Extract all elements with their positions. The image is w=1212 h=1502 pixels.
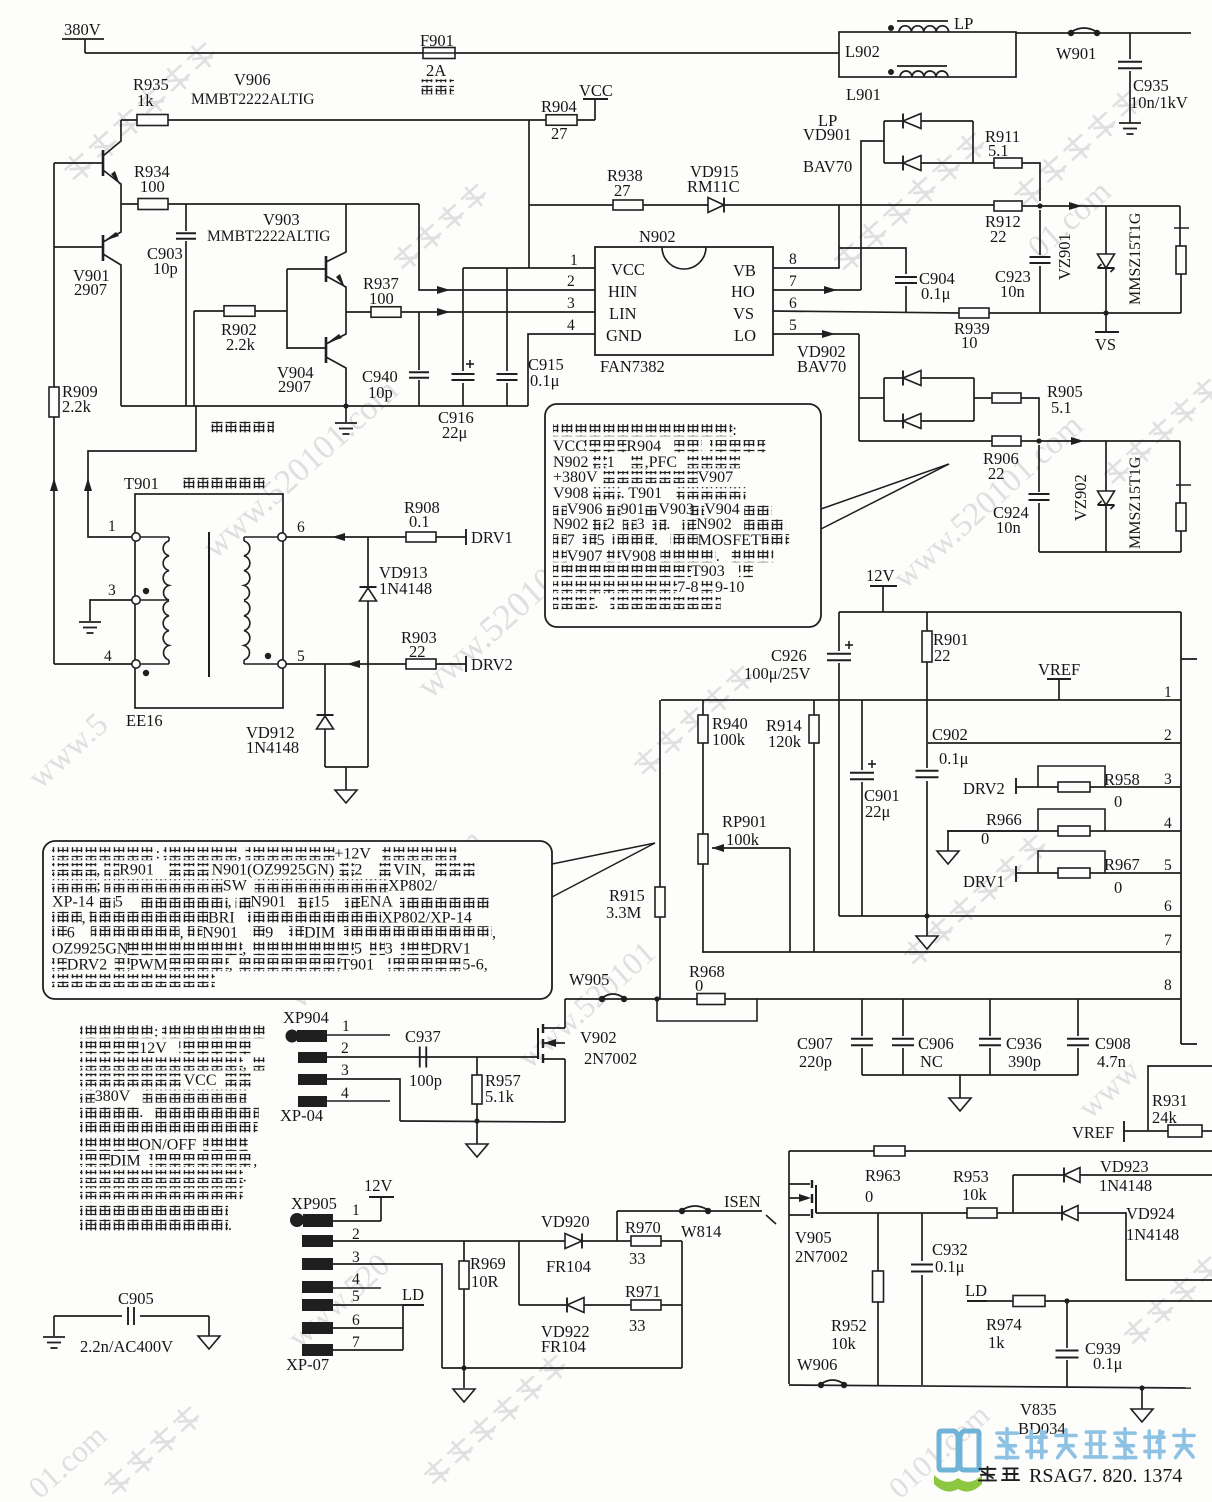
svg-text:R970: R970 xyxy=(625,1218,661,1237)
ground (C905 left) xyxy=(43,1336,65,1338)
svg-text:5-6,: 5-6, xyxy=(462,957,487,974)
svg-text:33: 33 xyxy=(629,1249,646,1268)
wire V902 source to ground bus xyxy=(400,1121,565,1122)
svg-text:W906: W906 xyxy=(797,1355,837,1374)
jumper W814 xyxy=(679,1208,685,1214)
wire HIN drive xyxy=(419,204,595,290)
text box2 line 9 xyxy=(52,974,215,987)
svg-text:7: 7 xyxy=(352,1334,360,1351)
svg-text:15: 15 xyxy=(313,894,329,911)
svg-text:33: 33 xyxy=(629,1316,646,1335)
svg-text:0: 0 xyxy=(865,1187,873,1206)
resistor R952 10k xyxy=(877,1213,879,1271)
svg-text:DRV1: DRV1 xyxy=(963,872,1005,891)
svg-text:N902: N902 xyxy=(553,516,589,533)
svg-text:2: 2 xyxy=(354,862,362,879)
svg-text:www.520101.com: www.520101.com xyxy=(886,407,1090,596)
capacitor C902 0.1u xyxy=(926,662,928,768)
svg-text:HIN: HIN xyxy=(608,282,637,301)
resistor R912 22 xyxy=(994,201,1022,211)
svg-text:1: 1 xyxy=(108,518,116,535)
resistor R938 27 xyxy=(529,204,708,206)
svg-text:7: 7 xyxy=(789,273,797,290)
svg-text:1N4148: 1N4148 xyxy=(1126,1225,1179,1244)
svg-text:01.com: 01.com xyxy=(21,1418,113,1502)
svg-text:R967: R967 xyxy=(1104,855,1140,874)
ground (DRV clamp) xyxy=(335,790,357,803)
resistor R902 2.2k xyxy=(194,310,287,312)
capacitor C924 10n xyxy=(1038,445,1040,492)
svg-text:,: , xyxy=(492,925,496,942)
svg-text:C905: C905 xyxy=(118,1289,154,1308)
jumper W901 xyxy=(1068,30,1074,36)
svg-text:W814: W814 xyxy=(681,1222,721,1241)
svg-text:MMBT2222ALTIG: MMBT2222ALTIG xyxy=(207,228,330,245)
svg-text:L902: L902 xyxy=(845,42,880,61)
svg-text:1: 1 xyxy=(1164,684,1172,701)
node V904 collector junction xyxy=(343,403,348,408)
svg-text:22: 22 xyxy=(409,642,426,661)
svg-text:PWM: PWM xyxy=(130,957,168,974)
capacitor C923 10n xyxy=(1039,210,1041,255)
text box1 line 6 xyxy=(553,503,567,515)
wire pin8 VB riser xyxy=(773,205,839,268)
svg-text:,: , xyxy=(82,910,86,927)
svg-text:3: 3 xyxy=(108,582,116,599)
wire 380V rail xyxy=(85,52,839,54)
svg-text:390p: 390p xyxy=(1008,1052,1041,1071)
svg-text:22: 22 xyxy=(934,646,951,665)
ground (R966) xyxy=(947,831,949,851)
svg-text:4: 4 xyxy=(104,648,112,665)
capacitor C908 xyxy=(1077,999,1079,1036)
svg-text:XP-14: XP-14 xyxy=(52,894,94,911)
svg-text:VB: VB xyxy=(733,261,756,280)
svg-text:10n/1kV: 10n/1kV xyxy=(1130,93,1188,112)
svg-text:7: 7 xyxy=(1164,932,1172,949)
text box1 line 10 xyxy=(553,565,691,577)
svg-text:OZ9925GN: OZ9925GN xyxy=(52,941,129,958)
text box1 line 9 xyxy=(553,550,567,562)
wire C904 branch xyxy=(839,248,906,274)
svg-text:+12V: +12V xyxy=(334,846,371,863)
diode VD922 FR104 xyxy=(567,1298,584,1313)
node C902/C926 ground junction xyxy=(924,913,929,918)
svg-text:DRV2: DRV2 xyxy=(471,655,513,674)
text box1 line 8 xyxy=(553,534,567,546)
resistor R935 1k xyxy=(121,119,546,121)
svg-text:.: . xyxy=(139,1104,143,1121)
text box1 line 1 xyxy=(553,424,732,436)
svg-text:1: 1 xyxy=(342,1018,350,1035)
svg-text:VIN,: VIN, xyxy=(393,862,425,879)
svg-text:1N4148: 1N4148 xyxy=(1099,1176,1152,1195)
svg-text:.: . xyxy=(654,532,658,549)
potentiometer RP901 100k xyxy=(698,834,708,864)
svg-text:22μ: 22μ xyxy=(442,423,468,442)
svg-text:C937: C937 xyxy=(405,1027,441,1046)
svg-text:1N4148: 1N4148 xyxy=(379,579,432,598)
resistor R974 1k xyxy=(987,1300,1013,1302)
svg-text:2.2k: 2.2k xyxy=(62,397,92,416)
svg-text:V902: V902 xyxy=(580,1028,617,1047)
wire R963 rail xyxy=(789,1150,1212,1152)
svg-text:5: 5 xyxy=(789,317,797,334)
ground (V905 bus) xyxy=(1141,1388,1143,1409)
svg-text:2N7002: 2N7002 xyxy=(795,1247,848,1266)
capacitor C932 0.1u xyxy=(921,1213,923,1261)
svg-text:FR104: FR104 xyxy=(546,1257,591,1276)
wire ISEN branch xyxy=(616,1211,618,1241)
wire VD923 branch xyxy=(1012,1175,1014,1213)
svg-text:7-8: 7-8 xyxy=(677,579,698,596)
svg-text:VD923: VD923 xyxy=(1100,1157,1149,1176)
svg-text:10k: 10k xyxy=(831,1334,857,1353)
resistor (load) right branch 2 xyxy=(1179,441,1181,503)
label Hisense RSAG7.820.1374 xyxy=(979,1467,996,1481)
svg-text:R904: R904 xyxy=(626,438,661,455)
resistor R914 120k xyxy=(813,700,815,715)
svg-text:MMSZ15T1G: MMSZ15T1G xyxy=(1127,456,1144,549)
node ground bus junction xyxy=(1139,1385,1144,1390)
svg-text:27: 27 xyxy=(551,124,568,143)
svg-text:V903: V903 xyxy=(263,210,300,229)
svg-text:2N7002: 2N7002 xyxy=(584,1049,637,1068)
svg-text:12V: 12V xyxy=(139,1040,167,1057)
resistor R940 100k xyxy=(702,700,704,715)
wire VCC to N902 pin1 xyxy=(528,120,530,268)
svg-text:0.1μ: 0.1μ xyxy=(530,371,560,390)
svg-text:SW: SW xyxy=(223,878,248,895)
ground (XP904 bus) xyxy=(476,1121,478,1144)
wire VD912/VD913 common xyxy=(325,766,368,768)
svg-text:RM11C: RM11C xyxy=(687,177,740,196)
svg-text:,: , xyxy=(228,894,232,911)
svg-text:10p: 10p xyxy=(153,259,178,278)
wire pin5 LO to VD902 xyxy=(773,333,859,335)
svg-text:F901: F901 xyxy=(420,31,454,50)
node R957 ground junction xyxy=(474,1118,479,1123)
capacitor C940 10p xyxy=(418,312,420,370)
svg-text:1: 1 xyxy=(352,1202,360,1219)
resistor R963 0 xyxy=(874,1146,905,1156)
resistor R911 5.1 xyxy=(973,162,994,164)
svg-text:100p: 100p xyxy=(409,1071,442,1090)
svg-text:XP-07: XP-07 xyxy=(286,1355,329,1374)
svg-text:HO: HO xyxy=(731,282,755,301)
svg-text:120k: 120k xyxy=(768,732,802,751)
svg-text:FAN7382: FAN7382 xyxy=(600,357,665,376)
svg-text:100: 100 xyxy=(369,289,394,308)
wire amp ground bus xyxy=(121,405,528,407)
capacitor C916 22u xyxy=(462,268,464,371)
svg-text:C907: C907 xyxy=(797,1034,833,1053)
svg-text:10n: 10n xyxy=(1000,282,1025,301)
svg-text:VD920: VD920 xyxy=(541,1212,590,1231)
svg-text:VS: VS xyxy=(733,304,754,323)
svg-text:3: 3 xyxy=(341,1062,349,1079)
resistor R934 100 xyxy=(121,203,419,205)
node R906 junction xyxy=(1036,438,1041,443)
svg-text:6: 6 xyxy=(789,295,797,312)
svg-text:R974: R974 xyxy=(986,1315,1022,1334)
svg-text:R969: R969 xyxy=(470,1254,506,1273)
svg-text:W905: W905 xyxy=(569,970,609,989)
wire GND pin4 of N902 xyxy=(528,334,595,406)
svg-text:380V: 380V xyxy=(95,1088,131,1105)
ground (cap rail) xyxy=(959,1075,961,1098)
winding secondary (right) xyxy=(244,536,278,538)
svg-text:DRV1: DRV1 xyxy=(471,528,513,547)
net label VS xyxy=(1105,313,1107,332)
wire V905 source bus xyxy=(789,1385,1191,1388)
wire VD924 out xyxy=(1078,1213,1212,1280)
svg-text:220p: 220p xyxy=(799,1052,832,1071)
svg-text:.: . xyxy=(243,1169,247,1186)
svg-text:5: 5 xyxy=(597,532,605,549)
text box: pulse amplifier description xyxy=(545,404,821,627)
svg-text:0.1μ: 0.1μ xyxy=(921,284,951,303)
text box2 line 8 xyxy=(52,958,67,971)
capacitor C939 0.1u xyxy=(1066,1301,1068,1348)
wire choke output xyxy=(1016,32,1191,34)
svg-text:N902: N902 xyxy=(639,227,676,246)
svg-text:5: 5 xyxy=(354,941,362,958)
svg-text:DRV1: DRV1 xyxy=(430,941,471,958)
svg-text:100: 100 xyxy=(140,177,165,196)
svg-text:9: 9 xyxy=(265,925,273,942)
svg-text:ISEN: ISEN xyxy=(724,1192,761,1211)
svg-text:V907: V907 xyxy=(698,469,734,486)
node C939 junction xyxy=(1064,1298,1069,1303)
svg-text:XP802/: XP802/ xyxy=(388,878,437,895)
svg-text:XP905: XP905 xyxy=(291,1194,337,1213)
svg-text:R904: R904 xyxy=(541,97,577,116)
svg-text:,: , xyxy=(242,941,246,958)
svg-text:VREF: VREF xyxy=(1072,1123,1114,1142)
svg-text:V835: V835 xyxy=(1020,1400,1057,1419)
svg-text:V905: V905 xyxy=(795,1228,832,1247)
svg-text:27: 27 xyxy=(614,181,631,200)
paragraph inverter line 3 xyxy=(80,1057,243,1070)
svg-text:L901: L901 xyxy=(846,85,881,104)
svg-text:V906: V906 xyxy=(234,70,271,89)
svg-text:+380V: +380V xyxy=(553,469,598,486)
svg-text:3.3M: 3.3M xyxy=(606,903,642,922)
wire 12V bus xyxy=(839,611,1181,613)
resistor R908 0.1 xyxy=(406,532,436,542)
svg-text:380V: 380V xyxy=(64,20,101,39)
svg-text:www.520: www.520 xyxy=(281,1246,397,1355)
diode VD923 1N4148 xyxy=(1064,1168,1080,1183)
capacitor C901 22u xyxy=(861,700,863,770)
resistor R931 24k xyxy=(1148,1066,1212,1131)
svg-text:10p: 10p xyxy=(368,383,393,402)
svg-text:VCC: VCC xyxy=(611,260,645,279)
capacitor C935 10n/1kV xyxy=(1129,33,1131,59)
svg-text:2.2n/AC400V: 2.2n/AC400V xyxy=(80,1337,173,1356)
ground (R969) xyxy=(463,1368,465,1388)
svg-text:DIM: DIM xyxy=(110,1153,141,1170)
svg-text:MMSZ15T1G: MMSZ15T1G xyxy=(1127,212,1144,305)
svg-text:2: 2 xyxy=(607,516,615,533)
svg-text:4: 4 xyxy=(1164,815,1172,832)
svg-text:3: 3 xyxy=(637,516,645,533)
svg-text:VREF: VREF xyxy=(1038,660,1080,679)
svg-text:9-10: 9-10 xyxy=(715,579,744,596)
svg-text:,: , xyxy=(238,846,242,863)
svg-text:10n: 10n xyxy=(996,518,1021,537)
svg-text:5.1: 5.1 xyxy=(1051,398,1072,417)
svg-text:ON/OFF: ON/OFF xyxy=(139,1136,196,1153)
svg-text:. T901: . T901 xyxy=(621,485,662,502)
resistor R904 27 xyxy=(546,115,577,126)
svg-text:V903: V903 xyxy=(658,501,694,518)
svg-text:MMBT2222ALTIG: MMBT2222ALTIG xyxy=(191,91,314,108)
svg-text:10: 10 xyxy=(961,333,978,352)
wire W905 to V902 drain xyxy=(565,998,657,1000)
svg-text:5: 5 xyxy=(297,648,305,665)
svg-text:22μ: 22μ xyxy=(865,802,891,821)
resistor R915 3.3M xyxy=(659,700,661,887)
svg-text:BAV70: BAV70 xyxy=(797,357,846,376)
svg-text:XP802/XP-14: XP802/XP-14 xyxy=(381,910,472,927)
svg-text::: : xyxy=(156,846,160,863)
svg-text:T901: T901 xyxy=(340,957,374,974)
svg-text:,: , xyxy=(243,1056,247,1073)
svg-text:10k: 10k xyxy=(962,1185,988,1204)
svg-text:2.2k: 2.2k xyxy=(226,335,256,354)
svg-text:100k: 100k xyxy=(726,830,760,849)
wire R909 to T901 pin4 xyxy=(53,417,55,664)
wire pin5-7 tie xyxy=(402,1305,404,1350)
svg-text:4: 4 xyxy=(352,1271,360,1288)
resistor R906 22 xyxy=(859,440,992,442)
wire R970/R971 common xyxy=(681,1241,683,1368)
svg-text:R971: R971 xyxy=(625,1282,661,1301)
paragraph inverter line 5 xyxy=(80,1090,95,1103)
resistor R901 22 xyxy=(926,612,928,631)
capacitor C915 0.1u xyxy=(506,268,508,371)
svg-text:0.1μ: 0.1μ xyxy=(939,749,969,768)
wire VZ902 bottom rail xyxy=(1039,551,1181,553)
wire ground bus XP905 xyxy=(442,1367,682,1369)
resistor R937 100 xyxy=(346,311,595,313)
svg-text:R952: R952 xyxy=(831,1316,867,1335)
paragraph inverter line 6 xyxy=(80,1106,139,1119)
svg-text:3: 3 xyxy=(1164,771,1172,788)
svg-text:5.1: 5.1 xyxy=(988,141,1009,160)
svg-text:XP-04: XP-04 xyxy=(280,1106,323,1125)
svg-text:LIN: LIN xyxy=(609,304,637,323)
svg-text:VCC: VCC xyxy=(553,438,586,455)
wire T901 pin4 xyxy=(54,663,132,665)
svg-text:6: 6 xyxy=(67,925,75,942)
svg-text:,: , xyxy=(253,1153,257,1170)
polarity dots T901 xyxy=(143,588,149,594)
svg-text:,: , xyxy=(229,957,233,974)
svg-text:100k: 100k xyxy=(712,730,746,749)
svg-text:,: , xyxy=(96,862,100,879)
wire T901 pin1 to amp bus xyxy=(88,406,196,537)
svg-text:V907: V907 xyxy=(567,548,603,565)
resistor R909 2.2k xyxy=(49,387,59,417)
svg-text:2907: 2907 xyxy=(278,377,311,396)
paragraph inverter line 4 xyxy=(80,1073,184,1086)
svg-text:10R: 10R xyxy=(471,1272,499,1291)
svg-text:1: 1 xyxy=(607,454,615,471)
svg-text:6: 6 xyxy=(352,1312,360,1329)
svg-text:VZ902: VZ902 xyxy=(1071,474,1090,521)
svg-text:6: 6 xyxy=(1164,898,1172,915)
paragraph inverter line 7 xyxy=(80,1122,258,1135)
ground (amp bus) xyxy=(345,406,347,422)
svg-text:4.7n: 4.7n xyxy=(1097,1052,1126,1071)
diode VD912 1N4148 xyxy=(324,664,326,715)
svg-text:2A: 2A xyxy=(426,61,446,80)
svg-text:N901(OZ9925GN): N901(OZ9925GN) xyxy=(212,862,335,879)
text box2 line 6 xyxy=(52,926,67,939)
node W905 junction xyxy=(654,996,659,1001)
svg-text:VZ901: VZ901 xyxy=(1055,233,1074,280)
paragraph inverter line 9 xyxy=(80,1154,110,1167)
resistor R905 5.1 xyxy=(974,397,992,399)
ground (C905 right) xyxy=(208,1316,210,1336)
resistor R958 0 with jumper loop xyxy=(1038,766,1105,787)
paragraph inverter line 2 xyxy=(80,1041,139,1054)
svg-text:NC: NC xyxy=(920,1052,943,1071)
paragraph inverter line 8 xyxy=(80,1138,139,1151)
svg-text:12V: 12V xyxy=(866,566,895,585)
svg-text:3: 3 xyxy=(385,941,393,958)
node R969 ground junction xyxy=(461,1365,466,1370)
svg-text:W901: W901 xyxy=(1056,44,1096,63)
text box2 line 5 xyxy=(52,911,82,924)
text box1 line 12 xyxy=(553,597,594,609)
svg-text:V908: V908 xyxy=(553,485,589,502)
ground (C935) xyxy=(1119,122,1141,124)
svg-text:R901: R901 xyxy=(119,862,154,879)
svg-text:RP901: RP901 xyxy=(722,812,767,831)
svg-text:2907: 2907 xyxy=(74,280,107,299)
svg-text:7: 7 xyxy=(567,532,575,549)
wire VD922 branch xyxy=(518,1241,520,1305)
svg-text:LO: LO xyxy=(734,326,756,345)
svg-text:N902: N902 xyxy=(696,516,732,533)
svg-text:8: 8 xyxy=(1164,977,1172,994)
svg-text:4: 4 xyxy=(567,317,575,334)
diode VD915 RM11C xyxy=(708,198,724,213)
resistor R970 33 xyxy=(631,1236,661,1246)
svg-text:0.1μ: 0.1μ xyxy=(1093,1354,1123,1373)
text box2 line 2 xyxy=(52,863,96,876)
svg-text:FR104: FR104 xyxy=(541,1337,586,1356)
svg-text:.: . xyxy=(666,516,670,533)
svg-text:0: 0 xyxy=(1114,792,1122,811)
callout tail box2 xyxy=(552,843,655,864)
svg-text:N901: N901 xyxy=(202,925,238,942)
capacitor C904 0.1u xyxy=(905,286,907,313)
svg-text:C936: C936 xyxy=(1006,1034,1042,1053)
wire pin6 VS to R939 rail xyxy=(773,311,959,313)
svg-text:22: 22 xyxy=(988,464,1005,483)
jumper W905 xyxy=(599,996,605,1002)
svg-text:5: 5 xyxy=(1164,857,1172,874)
svg-text:100μ/25V: 100μ/25V xyxy=(744,664,811,683)
resistor R953 10k xyxy=(967,1208,997,1218)
logo book icon xyxy=(939,1431,979,1470)
svg-text:,: , xyxy=(180,925,184,942)
